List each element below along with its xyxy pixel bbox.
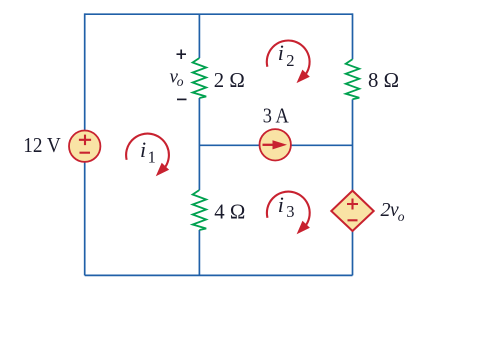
svg-text:8 Ω: 8 Ω: [368, 68, 399, 92]
current source 3A arrow: [263, 144, 275, 146]
resistor 2ohm zigzag: [193, 58, 207, 98]
svg-text:2: 2: [381, 199, 391, 221]
label plus above vo: [177, 50, 187, 60]
wire: middle vertical bottom segment (4 ohm to bottom edge): [198, 230, 200, 275]
svg-text:o: o: [177, 74, 184, 89]
svg-text:o: o: [398, 209, 405, 224]
wire: right edge top segment (top corner to 8 ohm): [352, 13, 354, 59]
svg-text:2 Ω: 2 Ω: [214, 68, 245, 92]
svg-text:i: i: [278, 192, 284, 217]
voltage source 12V circle: [69, 131, 100, 162]
dependent source minus sign: [348, 219, 358, 221]
wire: middle horizontal (node to right edge through 3A source): [199, 144, 352, 146]
svg-text:4 Ω: 4 Ω: [214, 199, 245, 223]
mesh current i3 arc: [267, 192, 310, 235]
wire: right edge bottom segment (diamond to bottom corner): [352, 231, 354, 275]
wire: middle vertical segment (2 ohm to 4 ohm through node): [198, 98, 200, 190]
wire: outer bottom edge: [85, 274, 353, 276]
svg-text:12 V: 12 V: [23, 133, 61, 157]
wire: outer top edge: [85, 13, 353, 15]
current source 3A circle: [260, 129, 291, 160]
wire: middle vertical top segment (top edge to 2 ohm): [198, 14, 200, 58]
svg-text:3 A: 3 A: [263, 104, 290, 128]
wire: right edge middle segment (8 ohm to diamond): [352, 99, 354, 190]
wire: outer left edge: [84, 13, 86, 275]
mesh current i2 arc: [267, 41, 310, 84]
svg-text:i: i: [278, 40, 284, 65]
voltage source 12V plus sign: [79, 135, 91, 146]
svg-text:2: 2: [286, 51, 294, 70]
svg-text:3: 3: [286, 202, 294, 221]
dependent source 2vo diamond: [331, 191, 373, 231]
mesh current i1 arc: [126, 134, 169, 177]
resistor 8ohm zigzag: [346, 59, 360, 99]
svg-text:1: 1: [148, 147, 156, 166]
svg-text:i: i: [140, 137, 146, 162]
label minus below vo: [177, 98, 187, 100]
resistor 4ohm zigzag: [193, 190, 207, 230]
voltage source 12V minus sign: [80, 152, 91, 154]
dependent source plus sign: [347, 199, 358, 210]
